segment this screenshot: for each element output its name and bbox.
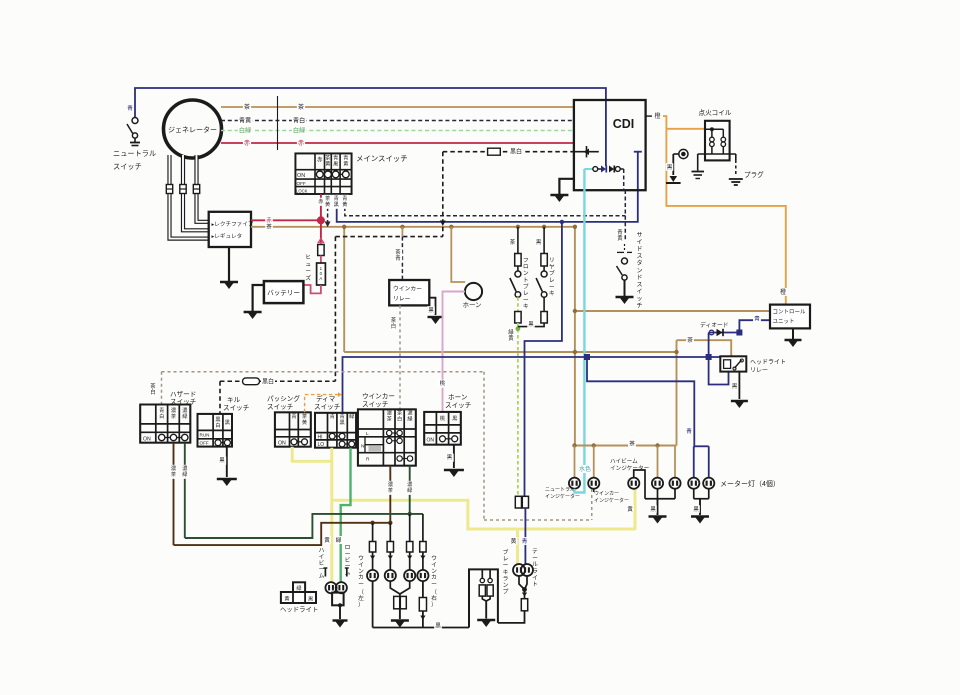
- svg-text:ON: ON: [297, 173, 305, 179]
- svg-text:茶: 茶: [687, 336, 693, 344]
- svg-text:ス: ス: [636, 281, 642, 288]
- svg-text:白緑: 白緑: [293, 127, 305, 135]
- svg-text:レ: レ: [503, 557, 509, 563]
- svg-text:青: 青: [343, 154, 348, 162]
- svg-text:）: ）: [431, 601, 437, 608]
- svg-text:青: 青: [342, 194, 347, 202]
- svg-text:R: R: [366, 456, 370, 462]
- svg-text:）: ）: [358, 601, 364, 608]
- svg-text:茶: 茶: [302, 412, 308, 420]
- svg-text:ウ: ウ: [358, 554, 364, 562]
- svg-text:キ: キ: [503, 570, 509, 576]
- svg-text:濃: 濃: [388, 480, 394, 488]
- svg-text:L: L: [366, 431, 369, 437]
- svg-text:ウインカー: ウインカー: [393, 285, 422, 293]
- svg-text:ド: ド: [636, 275, 642, 281]
- svg-text:水色: 水色: [579, 465, 591, 473]
- svg-text:ト: ト: [523, 278, 529, 284]
- svg-text:茶: 茶: [171, 412, 177, 420]
- svg-text:ー: ー: [431, 582, 437, 588]
- svg-text:ル: ル: [532, 562, 538, 568]
- svg-text:ディマ: ディマ: [316, 394, 336, 403]
- svg-text:緑: 緑: [407, 415, 413, 423]
- svg-text:白: 白: [391, 322, 396, 330]
- svg-text:ブ: ブ: [549, 269, 555, 277]
- svg-text:▸レクチファイア: ▸レクチファイア: [212, 221, 254, 228]
- svg-text:ム: ム: [345, 570, 351, 577]
- svg-text:緑: 緑: [349, 412, 355, 420]
- svg-text:キ: キ: [549, 291, 555, 297]
- svg-text:ン: ン: [636, 268, 642, 274]
- svg-text:黒: 黒: [536, 239, 542, 246]
- svg-text:橙: 橙: [654, 112, 660, 120]
- svg-text:ト: ト: [532, 582, 538, 588]
- svg-text:スイッチ: スイッチ: [223, 404, 250, 412]
- svg-text:ー: ー: [549, 284, 555, 290]
- svg-text:コントロール: コントロール: [773, 309, 807, 316]
- svg-text:スイッチ: スイッチ: [362, 401, 389, 409]
- svg-text:青白: 青白: [293, 117, 305, 125]
- svg-text:カ: カ: [431, 574, 437, 581]
- svg-text:ON: ON: [143, 437, 151, 443]
- svg-text:黒: 黒: [452, 415, 457, 422]
- svg-text:濃: 濃: [407, 409, 413, 417]
- svg-text:ー: ー: [345, 564, 351, 570]
- svg-text:黒白: 黒白: [262, 377, 274, 385]
- svg-text:緑: 緑: [296, 584, 302, 592]
- svg-text:ユニット: ユニット: [773, 318, 795, 325]
- svg-text:プラグ: プラグ: [744, 170, 764, 179]
- svg-text:茶: 茶: [397, 409, 403, 417]
- svg-text:黄: 黄: [302, 418, 307, 426]
- svg-text:黄: 黄: [324, 536, 330, 544]
- svg-text:茶: 茶: [510, 238, 516, 246]
- svg-text:ハ: ハ: [319, 548, 325, 554]
- svg-text:ディオード: ディオード: [700, 321, 729, 329]
- svg-text:黒: 黒: [333, 161, 338, 168]
- svg-text:スイッチ: スイッチ: [314, 403, 341, 411]
- svg-text:フ: フ: [523, 257, 529, 264]
- svg-text:テ: テ: [532, 548, 538, 555]
- svg-text:インジケーター: インジケーター: [545, 493, 580, 500]
- svg-text:ラ: ラ: [532, 568, 538, 575]
- svg-text:LO: LO: [318, 442, 325, 448]
- svg-text:橙: 橙: [780, 288, 786, 296]
- svg-text:スイッチ: スイッチ: [113, 162, 142, 171]
- svg-text:黄: 黄: [325, 160, 330, 168]
- svg-text:黄: 黄: [617, 234, 623, 242]
- svg-text:レ: レ: [523, 291, 529, 297]
- svg-text:青黄: 青黄: [239, 117, 251, 125]
- svg-text:バッテリー: バッテリー: [267, 289, 300, 297]
- svg-text:ド: ド: [636, 247, 642, 253]
- svg-text:ヤ: ヤ: [549, 265, 555, 271]
- svg-text:右: 右: [431, 594, 437, 602]
- svg-text:ズ: ズ: [305, 274, 311, 282]
- svg-text:ウインカー: ウインカー: [362, 393, 395, 401]
- svg-text:黄: 黄: [284, 595, 289, 603]
- svg-text:レ: レ: [549, 278, 555, 284]
- svg-text:白: 白: [150, 388, 155, 396]
- svg-text:リ: リ: [549, 258, 555, 264]
- svg-text:点火コイル: 点火コイル: [699, 109, 732, 117]
- svg-text:黒: 黒: [650, 506, 656, 513]
- svg-text:緑: 緑: [182, 470, 188, 478]
- svg-text:ラ: ラ: [503, 575, 509, 582]
- svg-text:黄: 黄: [508, 334, 514, 342]
- svg-text:青: 青: [754, 314, 760, 322]
- svg-text:黄: 黄: [343, 160, 348, 168]
- svg-text:ン: ン: [523, 271, 529, 277]
- svg-text:黄: 黄: [325, 200, 330, 208]
- svg-text:茶: 茶: [171, 470, 177, 478]
- svg-text:ホーン: ホーン: [448, 394, 468, 402]
- svg-text:ビ: ビ: [345, 556, 351, 564]
- svg-text:白: 白: [215, 421, 220, 429]
- svg-text:ロ: ロ: [523, 265, 529, 271]
- svg-text:ム: ム: [319, 573, 325, 580]
- svg-text:左: 左: [358, 594, 364, 602]
- svg-text:インジケーター: インジケーター: [610, 464, 650, 472]
- svg-text:LOCK: LOCK: [296, 188, 308, 193]
- svg-text:ー: ー: [358, 582, 364, 588]
- svg-text:サ: サ: [636, 232, 642, 239]
- svg-text:ー: ー: [523, 298, 529, 304]
- svg-text:ン: ン: [431, 569, 437, 575]
- svg-text:青: 青: [159, 406, 164, 414]
- svg-text:ハザード: ハザード: [170, 391, 196, 399]
- svg-text:黒: 黒: [219, 457, 225, 464]
- svg-text:茶: 茶: [391, 316, 397, 324]
- svg-text:ヘッドライト: ヘッドライト: [750, 359, 786, 366]
- svg-text:ュ: ュ: [305, 262, 311, 268]
- svg-text:ON: ON: [278, 441, 286, 447]
- svg-text:チ: チ: [636, 303, 642, 310]
- svg-text:イ: イ: [636, 289, 642, 295]
- svg-text:OFF: OFF: [200, 441, 209, 446]
- svg-text:スイッチ: スイッチ: [445, 402, 472, 410]
- svg-text:赤: 赤: [318, 198, 323, 205]
- svg-text:ホーン: ホーン: [463, 301, 482, 309]
- svg-text:ウ: ウ: [431, 554, 437, 562]
- svg-text:茶: 茶: [150, 382, 156, 390]
- svg-text:黒: 黒: [528, 321, 534, 328]
- svg-text:キ: キ: [523, 304, 529, 310]
- svg-text:青: 青: [291, 412, 296, 420]
- svg-text:白緑: 白緑: [239, 127, 251, 135]
- svg-text:赤: 赤: [317, 156, 323, 164]
- svg-text:黒: 黒: [667, 164, 673, 171]
- svg-text:ジェネレーター: ジェネレーター: [168, 125, 217, 134]
- svg-text:ニュートラル: ニュートラル: [545, 487, 575, 493]
- svg-text:スイッチ: スイッチ: [170, 398, 197, 406]
- svg-text:緑: 緑: [508, 328, 514, 336]
- svg-text:青: 青: [395, 254, 401, 262]
- svg-text:青: 青: [334, 194, 339, 202]
- svg-text:青: 青: [339, 412, 344, 420]
- svg-text:茶: 茶: [325, 154, 331, 162]
- svg-text:ウインカー: ウインカー: [594, 490, 619, 497]
- svg-text:赤: 赤: [266, 216, 272, 224]
- svg-text:赤: 赤: [298, 140, 304, 147]
- svg-text:黒: 黒: [428, 307, 434, 314]
- svg-text:茶: 茶: [266, 223, 272, 231]
- svg-text:ッ: ッ: [636, 296, 642, 302]
- svg-text:イ: イ: [319, 554, 325, 560]
- svg-text:濃: 濃: [407, 480, 413, 488]
- svg-text:黒: 黒: [732, 383, 738, 390]
- svg-text:ヒ: ヒ: [305, 254, 311, 261]
- svg-text:ー: ー: [532, 556, 538, 562]
- svg-text:キル: キル: [227, 397, 241, 404]
- svg-text:緑: 緑: [407, 486, 413, 494]
- svg-text:緑: 緑: [336, 536, 342, 544]
- svg-text:黒: 黒: [693, 506, 699, 513]
- svg-text:インジケーター: インジケーター: [594, 497, 629, 504]
- svg-text:ー: ー: [305, 269, 311, 275]
- svg-text:濃: 濃: [171, 406, 177, 414]
- svg-text:青: 青: [686, 427, 692, 435]
- svg-text:黒: 黒: [435, 622, 441, 629]
- svg-text:ー: ー: [345, 551, 351, 557]
- svg-text:ー: ー: [319, 567, 325, 573]
- svg-text:黄: 黄: [342, 200, 347, 208]
- svg-text:ブ: ブ: [523, 282, 529, 290]
- svg-text:CDI: CDI: [613, 117, 635, 131]
- svg-text:ン: ン: [503, 583, 509, 589]
- svg-text:ロ: ロ: [345, 545, 351, 551]
- svg-text:タ: タ: [636, 259, 642, 267]
- svg-text:白: 白: [159, 412, 164, 420]
- svg-text:茶: 茶: [388, 486, 394, 494]
- svg-text:濃: 濃: [387, 409, 393, 417]
- svg-text:青: 青: [333, 154, 338, 162]
- svg-text:桃: 桃: [440, 414, 446, 422]
- svg-text:カ: カ: [358, 574, 364, 581]
- svg-text:ヘッドライト: ヘッドライト: [280, 606, 318, 614]
- svg-text:桃: 桃: [440, 379, 446, 387]
- svg-text:メインスイッチ: メインスイッチ: [356, 154, 408, 163]
- svg-text:茶: 茶: [395, 248, 401, 256]
- svg-text:黒: 黒: [334, 201, 339, 208]
- svg-text:白: 白: [397, 415, 402, 423]
- svg-text:青: 青: [522, 537, 528, 545]
- svg-text:黄: 黄: [511, 537, 517, 545]
- svg-text:RUN: RUN: [200, 433, 210, 438]
- svg-text:青: 青: [127, 104, 133, 112]
- svg-text:OFF: OFF: [297, 181, 306, 186]
- svg-text:ン: ン: [358, 569, 364, 575]
- svg-text:（: （: [358, 589, 364, 596]
- svg-text:濃: 濃: [171, 464, 177, 472]
- svg-text:（: （: [431, 589, 437, 596]
- svg-text:リレー: リレー: [393, 297, 411, 303]
- svg-text:HI: HI: [318, 434, 323, 440]
- svg-text:濃: 濃: [182, 464, 188, 472]
- svg-text:スイッチ: スイッチ: [267, 403, 294, 411]
- svg-text:ニュートラル: ニュートラル: [113, 149, 156, 158]
- svg-text:茶: 茶: [244, 103, 250, 111]
- svg-text:茶: 茶: [298, 103, 304, 111]
- svg-text:黒: 黒: [225, 419, 230, 426]
- svg-text:茶: 茶: [629, 439, 635, 447]
- svg-text:赤: 赤: [244, 140, 250, 147]
- svg-text:▸レギュレタ: ▸レギュレタ: [212, 232, 243, 240]
- svg-text:ビ: ビ: [319, 559, 325, 567]
- svg-text:濃: 濃: [182, 406, 188, 414]
- svg-text:青: 青: [330, 412, 335, 420]
- svg-text:ハイビーム: ハイビーム: [610, 457, 638, 465]
- svg-text:緑: 緑: [182, 412, 188, 420]
- svg-text:A: A: [319, 276, 322, 281]
- svg-text:ON: ON: [427, 438, 435, 444]
- svg-text:パッシング: パッシング: [267, 394, 300, 403]
- svg-text:リレー: リレー: [750, 368, 768, 374]
- svg-text:プ: プ: [503, 589, 509, 596]
- svg-text:イ: イ: [358, 562, 364, 568]
- svg-text:イ: イ: [532, 575, 538, 581]
- svg-text:黒: 黒: [447, 454, 453, 461]
- svg-text:イ: イ: [431, 562, 437, 568]
- svg-text:黄: 黄: [627, 505, 633, 513]
- svg-text:黒: 黒: [308, 596, 313, 603]
- svg-text:青: 青: [617, 228, 623, 236]
- svg-text:ス: ス: [636, 253, 642, 260]
- svg-text:イ: イ: [636, 240, 642, 246]
- svg-text:黒: 黒: [339, 419, 344, 426]
- svg-text:ブ: ブ: [503, 548, 509, 556]
- svg-text:茶: 茶: [325, 194, 331, 202]
- svg-text:茶: 茶: [387, 415, 393, 423]
- svg-text:黒白: 黒白: [510, 148, 522, 156]
- svg-text:ー: ー: [503, 563, 509, 569]
- svg-text:メーター灯（4個）: メーター灯（4個）: [720, 479, 780, 488]
- svg-text:黒: 黒: [215, 416, 220, 423]
